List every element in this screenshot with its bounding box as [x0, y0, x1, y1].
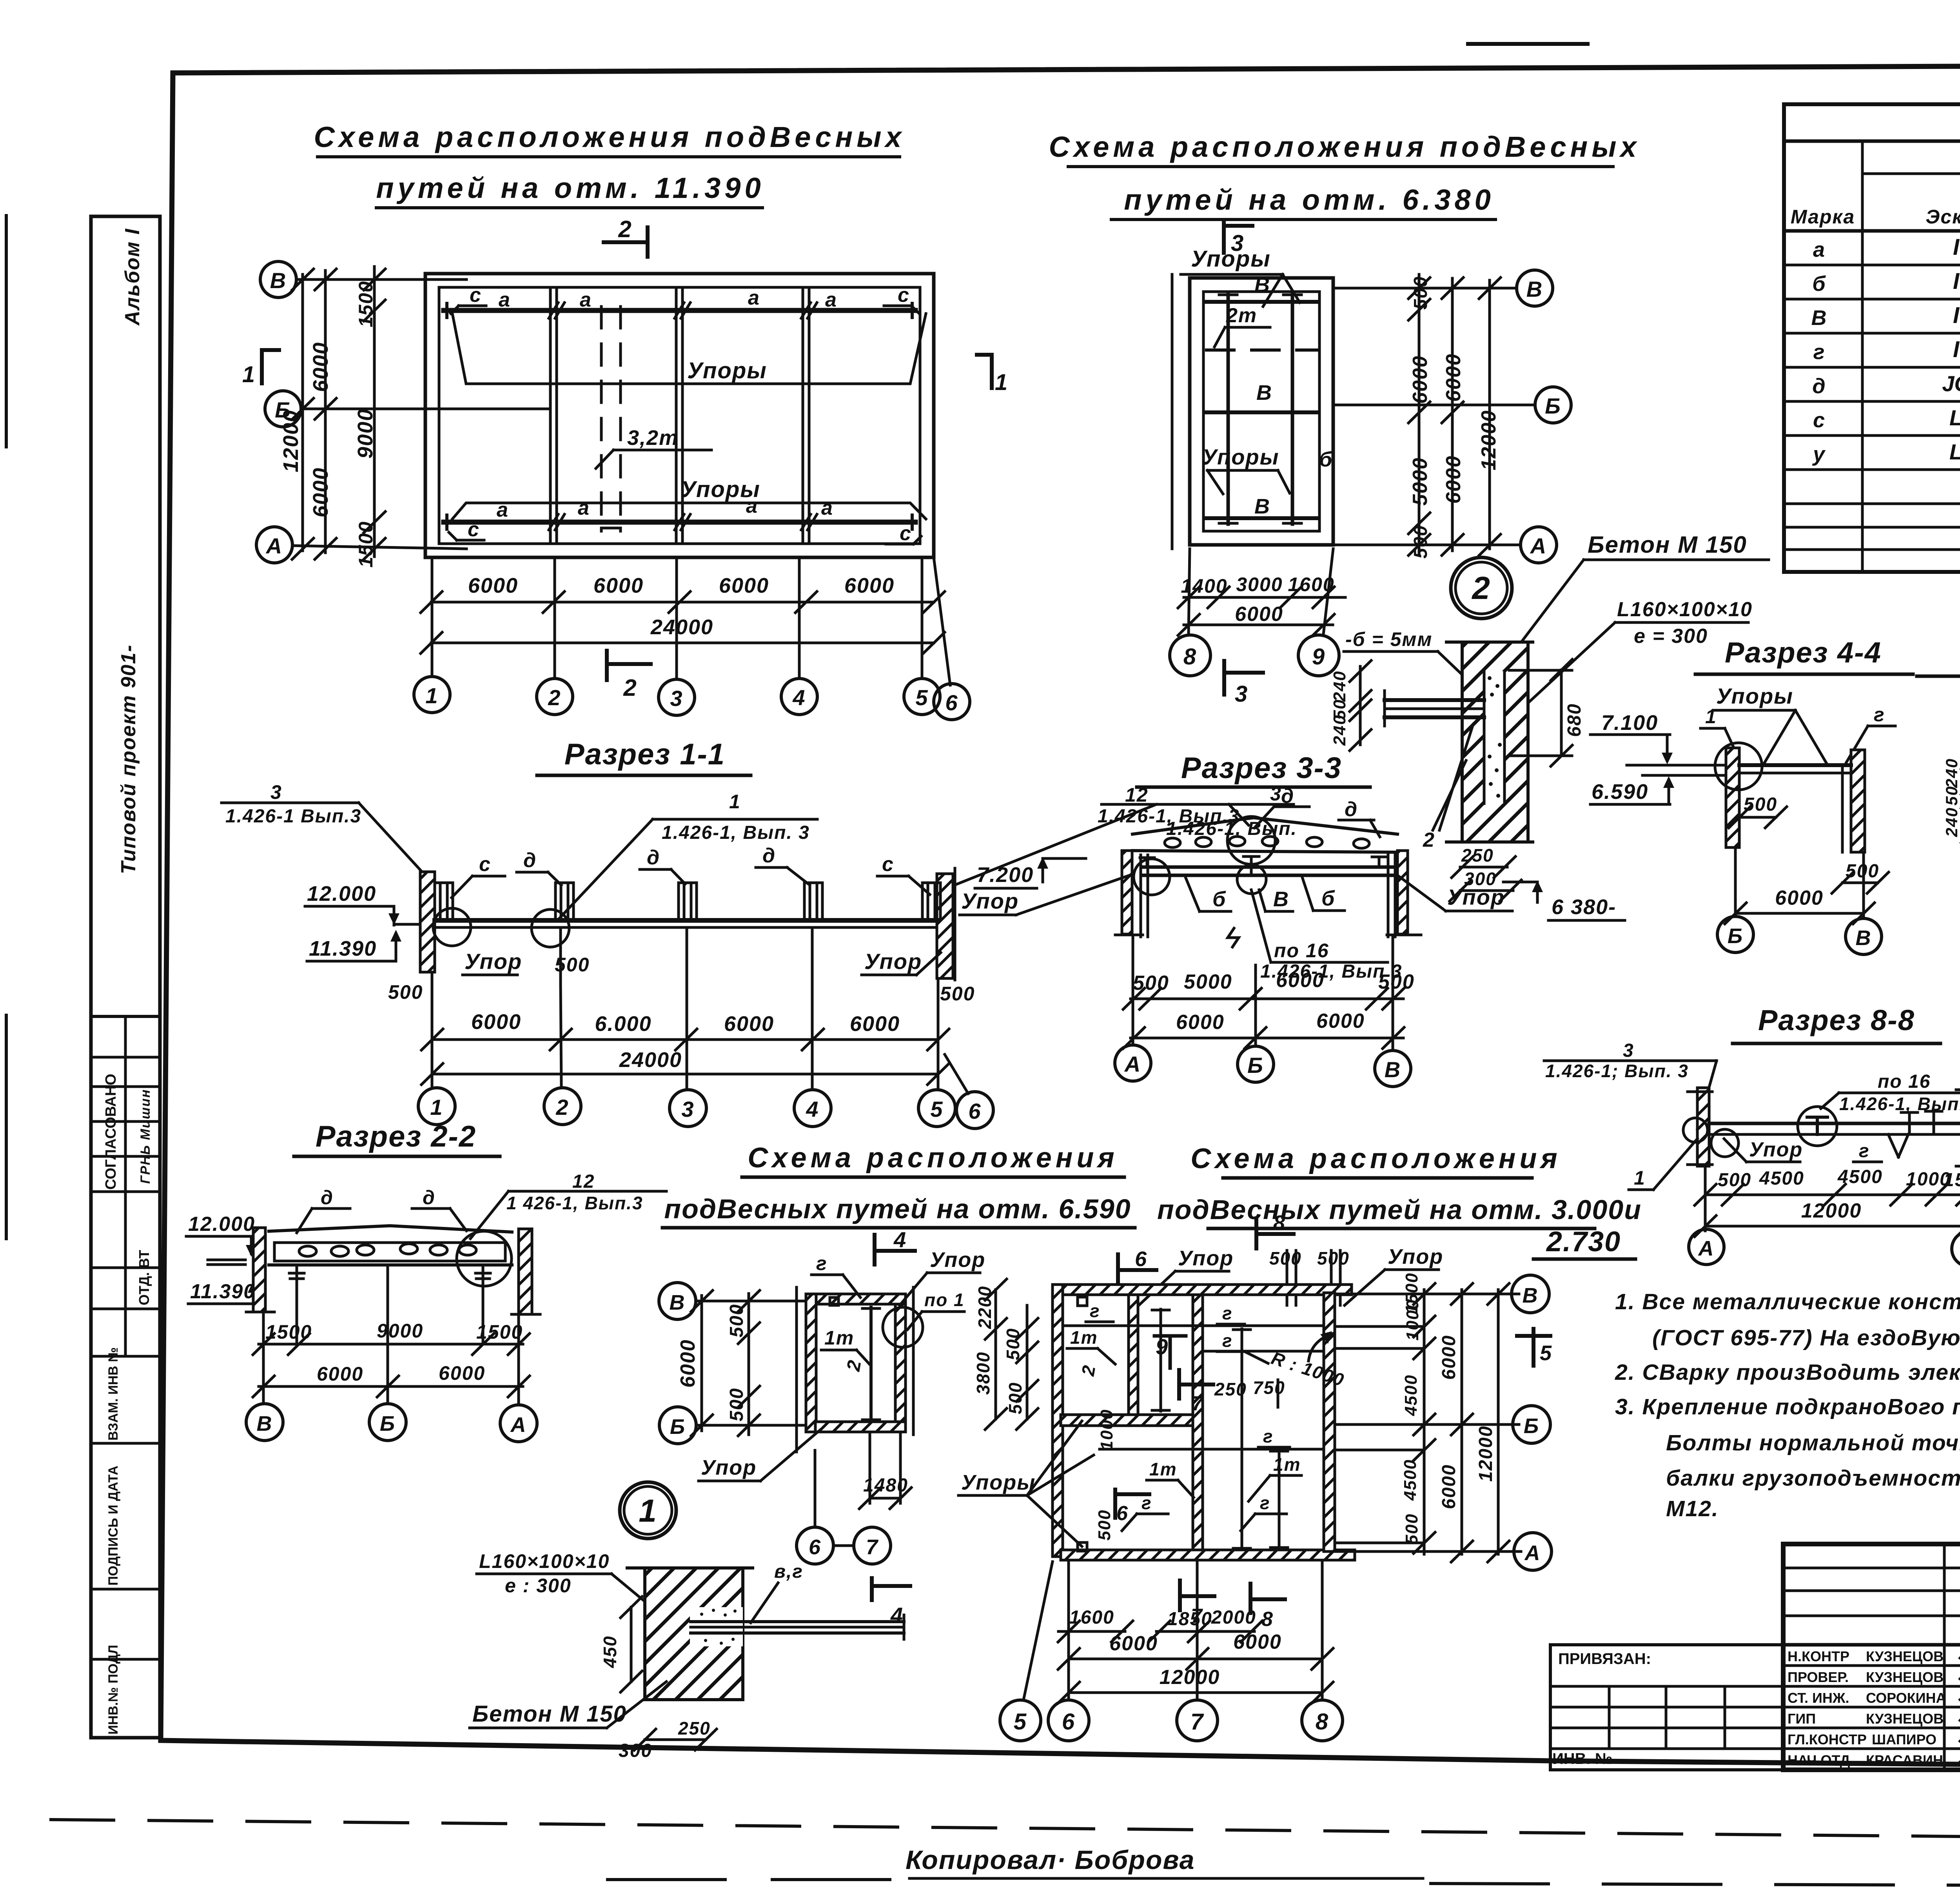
svg-text:4: 4 [893, 1227, 907, 1252]
svg-text:Упоры: Упоры [1191, 246, 1271, 272]
d labels [1281, 785, 1358, 821]
svg-text:б: б [1321, 887, 1335, 910]
svg-text:500: 500 [1378, 971, 1415, 993]
section marker 1 left [260, 350, 264, 383]
svg-text:6000: 6000 [1439, 1335, 1459, 1380]
svg-text:с: с [898, 284, 910, 307]
svg-text:Схема расположения подВесных: Схема расположения подВесных [314, 121, 905, 153]
250 / 750 [1214, 1377, 1285, 1399]
section marker 2 bottom [607, 662, 651, 666]
svg-text:5: 5 [1540, 1341, 1552, 1365]
L160 label [1617, 598, 1753, 648]
svg-text:8: 8 [1261, 1608, 1274, 1631]
leader 12 [1098, 784, 1240, 827]
svg-text:6000: 6000 [677, 1339, 699, 1388]
svg-text:6000: 6000 [1409, 355, 1432, 404]
label 2 leader [1423, 829, 1435, 851]
dim ticks right cols [1408, 278, 1501, 555]
bottom dims 6000/6000 [1069, 1658, 1322, 1660]
table data rows [1811, 234, 1960, 466]
svg-text:3: 3 [1235, 681, 1248, 707]
Upor left label [961, 889, 1019, 913]
svg-text:Упор: Упор [1749, 1138, 1803, 1161]
svg-text:12000: 12000 [1477, 410, 1500, 470]
svg-text:В: В [1523, 1284, 1539, 1307]
section marker 2 top [604, 240, 647, 244]
v labels [1254, 273, 1333, 518]
beam entering pocket [1385, 698, 1484, 702]
svg-text:В: В [1273, 887, 1289, 911]
po 1 [924, 1290, 965, 1310]
svg-text:8: 8 [1273, 1211, 1286, 1235]
right wall [937, 874, 953, 978]
Upor top-right [930, 1248, 985, 1272]
bottom dims [1184, 596, 1345, 599]
g label [1859, 1141, 1870, 1161]
svg-text:1: 1 [1705, 706, 1717, 728]
svg-text:5: 5 [1014, 1709, 1027, 1735]
Beton M150 [472, 1701, 627, 1727]
b=5mm label [1345, 628, 1432, 650]
left sidebar column [91, 216, 160, 1738]
500 labels [388, 954, 975, 1005]
1 label [1634, 1167, 1646, 1189]
svg-text:Разрез 2-2: Разрез 2-2 [316, 1120, 476, 1153]
dims row2 [1705, 1225, 1960, 1228]
svg-text:Альбом I: Альбом I [121, 228, 144, 326]
svg-text:6: 6 [968, 1099, 981, 1123]
svg-text:с: с [468, 518, 480, 541]
bottom dim row 2 [431, 642, 934, 644]
plan outer boundary lines [795, 1287, 798, 1452]
svg-text:В: В [1256, 381, 1272, 405]
svg-text:1.426-1 Вып.3: 1.426-1 Вып.3 [225, 806, 361, 827]
svg-text:1т: 1т [1149, 1459, 1177, 1479]
svg-text:6: 6 [1116, 1502, 1129, 1525]
circles B, Б [659, 1283, 696, 1319]
svg-text:500: 500 [940, 983, 975, 1005]
svg-text:1500: 1500 [265, 1321, 312, 1343]
svg-text:6000: 6000 [850, 1012, 900, 1036]
svg-text:по 16: по 16 [1878, 1071, 1931, 1092]
svg-text:1000: 1000 [1097, 1409, 1116, 1450]
svg-text:А: А [1698, 1237, 1715, 1260]
svg-text:1.426-1; Вып. 3: 1.426-1; Вып. 3 [1545, 1061, 1689, 1081]
title line 1 [314, 121, 905, 153]
svg-text:L: L [1949, 439, 1960, 464]
svg-text:24000: 24000 [650, 615, 713, 639]
svg-text:3000: 3000 [1236, 573, 1283, 595]
svg-text:500: 500 [726, 1304, 747, 1337]
svg-text:1т: 1т [1070, 1327, 1098, 1348]
left dims 240/50/240 [1359, 666, 1362, 745]
svg-text:ГЛ.КОНСТР: ГЛ.КОНСТР [1788, 1731, 1867, 1747]
svg-text:4500: 4500 [1759, 1168, 1804, 1189]
walls [1122, 851, 1132, 934]
svg-text:500: 500 [1003, 1328, 1023, 1360]
svg-text:Упоры: Упоры [1716, 684, 1793, 708]
pocket stipple [700, 1609, 737, 1645]
svg-text:9000: 9000 [354, 408, 377, 459]
svg-text:В: В [257, 1412, 273, 1435]
section marker 3 top [1222, 223, 1226, 253]
bottom dims 12000 [1069, 1691, 1322, 1694]
grid circle Б [265, 391, 301, 427]
svg-text:путей на отм. 6.380: путей на отм. 6.380 [1124, 183, 1495, 216]
privyazan annex [1552, 1650, 1651, 1767]
dim row 2 [432, 1073, 938, 1076]
right dim col 1 [1418, 274, 1421, 555]
svg-text:6000: 6000 [1109, 1632, 1158, 1655]
svg-text:КУЗНЕЦОВ: КУЗНЕЦОВ [1866, 1711, 1944, 1727]
svg-text:500: 500 [1402, 1513, 1421, 1544]
svg-text:6000: 6000 [317, 1363, 363, 1385]
svg-text:240: 240 [1330, 715, 1349, 746]
svg-text:1500: 1500 [355, 521, 377, 568]
svg-text:6000: 6000 [1775, 887, 1824, 909]
svg-text:д: д [647, 846, 660, 869]
vedomost table [1784, 104, 1960, 572]
1000 / 500 left rotated dims [1095, 1409, 1116, 1541]
svg-text:450: 450 [600, 1635, 620, 1668]
svg-text:д: д [1812, 374, 1825, 398]
svg-text:2: 2 [548, 685, 561, 710]
column circles 1-6 [414, 677, 450, 713]
svg-text:500: 500 [1744, 794, 1777, 815]
svg-text:6.000: 6.000 [595, 1012, 652, 1036]
svg-text:В: В [270, 268, 287, 293]
svg-text:6: 6 [1135, 1247, 1147, 1271]
svg-text:В: В [1385, 1057, 1401, 1082]
svg-text:750: 750 [1253, 1377, 1285, 1398]
svg-text:с: с [470, 284, 482, 307]
rail double line [435, 918, 937, 923]
hanger I sections [435, 883, 940, 920]
svg-text:Разрез 1-1: Разрез 1-1 [564, 738, 725, 771]
left dims [973, 1286, 1025, 1414]
right dim col 2 [1451, 278, 1454, 551]
svg-text:6 380-: 6 380- [1552, 895, 1616, 919]
svg-text:ОТД. ВТ: ОТД. ВТ [136, 1250, 152, 1305]
bottom handwritten texts [906, 1776, 1960, 1875]
svg-text:с: с [479, 853, 491, 876]
walls [1726, 748, 1739, 847]
svg-text:Б: Б [1247, 1053, 1264, 1078]
right dim col 1 [1423, 1290, 1426, 1554]
svg-text:Упор: Упор [1388, 1245, 1443, 1268]
right dim col 3 [1497, 1290, 1500, 1554]
extension lines [1133, 935, 1393, 1051]
svg-text:СТ. ИНЖ.: СТ. ИНЖ. [1788, 1690, 1849, 1706]
svg-text:3: 3 [670, 686, 683, 711]
beton M150 label [1588, 532, 1747, 558]
inside labels [1070, 1301, 1301, 1513]
section markers 7/8 bottom [1178, 1580, 1182, 1610]
svg-text:3,2т: 3,2т [627, 426, 679, 450]
svg-text:L160×100×10: L160×100×10 [479, 1550, 610, 1572]
joint circles [1134, 859, 1170, 895]
svg-text:Схема расположения: Схема расположения [748, 1142, 1118, 1174]
beam [1739, 763, 1851, 767]
svg-text:4: 4 [890, 1603, 904, 1628]
section marker 3 (between circles) [1222, 661, 1226, 695]
extensions + circles [263, 1265, 519, 1404]
upory trapezoid top [452, 314, 926, 384]
svg-text:1: 1 [425, 683, 438, 708]
svg-text:2: 2 [1423, 829, 1435, 851]
d labels [321, 1187, 436, 1208]
svg-text:Упор: Упор [1178, 1247, 1234, 1270]
svg-text:12.000: 12.000 [307, 882, 376, 905]
small T symbols right [1901, 1111, 1942, 1134]
svg-text:Бетон М 150: Бетон М 150 [472, 1701, 627, 1727]
dim ticks left [292, 269, 385, 559]
svg-text:В: В [1811, 306, 1827, 330]
vertical crane beams [1227, 294, 1230, 524]
section markers top [1116, 1254, 1120, 1284]
svg-text:1: 1 [995, 370, 1008, 395]
svg-text:11.390: 11.390 [309, 937, 377, 960]
outer wall [425, 274, 934, 557]
upory trapezoid bottom [452, 503, 926, 519]
svg-text:В: В [1254, 273, 1270, 297]
svg-text:1 426-1, Вып.3: 1 426-1, Вып.3 [506, 1193, 643, 1213]
svg-text:8: 8 [1183, 644, 1197, 670]
leader text mid [662, 791, 810, 843]
svg-text:3: 3 [270, 781, 282, 803]
svg-text:8: 8 [1316, 1709, 1329, 1735]
leaders for labels [1067, 1322, 1301, 1531]
svg-text:5000: 5000 [1184, 971, 1232, 993]
svg-text:Упор: Упор [1447, 885, 1505, 909]
po 16 leader [1260, 940, 1402, 982]
svg-text:А: А [265, 533, 283, 558]
svg-text:500: 500 [1133, 972, 1169, 994]
svg-text:1: 1 [729, 791, 741, 813]
hangers T [1140, 856, 1387, 875]
svg-text:ВЗАМ. ИНВ №: ВЗАМ. ИНВ № [106, 1347, 121, 1441]
svg-text:4500: 4500 [1401, 1459, 1420, 1501]
svg-text:6000: 6000 [468, 574, 518, 597]
svg-text:Типовой проект 901-: Типовой проект 901- [117, 644, 140, 875]
svg-text:6000: 6000 [309, 342, 332, 392]
svg-text:6000: 6000 [1235, 603, 1283, 626]
section marker 4 top [873, 1235, 877, 1265]
elevations [188, 1213, 256, 1303]
grid circle B [260, 261, 296, 298]
svg-text:Схема расположения подВесных: Схема расположения подВесных [1049, 131, 1640, 163]
hatched walls [806, 1294, 906, 1304]
svg-text:ПОДПИСЬ И ДАТА: ПОДПИСЬ И ДАТА [106, 1466, 121, 1586]
svg-text:М12.: М12. [1666, 1496, 1719, 1521]
svg-text:7: 7 [1191, 1709, 1204, 1735]
svg-text:2.730: 2.730 [1546, 1226, 1621, 1257]
inner column axes double lines [550, 287, 809, 544]
svg-text:500: 500 [388, 981, 423, 1003]
svg-text:7.100: 7.100 [1601, 711, 1658, 735]
svg-text:г: г [1260, 1493, 1270, 1513]
svg-text:по 1: по 1 [924, 1290, 965, 1310]
450 dim [630, 1607, 633, 1682]
svg-text:Упоры: Упоры [1202, 445, 1279, 469]
svg-text:I: I [1953, 234, 1960, 260]
svg-text:а: а [1813, 238, 1825, 261]
svg-text:6000: 6000 [844, 574, 895, 597]
left labels rows [1788, 1648, 1946, 1768]
grid circle A [256, 527, 292, 563]
svg-text:Бетон М 150: Бетон М 150 [1588, 532, 1747, 558]
dim row 1 [432, 1038, 938, 1041]
node circle [883, 1307, 923, 1347]
walls [1697, 1088, 1709, 1166]
svg-text:д: д [423, 1187, 436, 1208]
svg-text:д: д [762, 844, 776, 867]
extensions to circles [432, 927, 968, 1094]
break mark [1228, 928, 1239, 947]
svg-text:3: 3 [681, 1097, 694, 1121]
svg-text:г: г [1090, 1301, 1100, 1321]
svg-text:г: г [1874, 704, 1885, 726]
svg-text:6000: 6000 [471, 1010, 521, 1034]
leader text left [225, 781, 361, 827]
svg-text:Б: Б [670, 1415, 686, 1439]
joint circles [433, 908, 471, 946]
rail end markers [447, 303, 912, 529]
detail drawing: concrete wall with pocket [1462, 642, 1528, 842]
svg-text:12000: 12000 [1160, 1666, 1220, 1689]
svg-text:а: а [748, 287, 760, 309]
inner beam [869, 1307, 873, 1421]
leader 12 [506, 1171, 643, 1213]
svg-text:6000: 6000 [1442, 455, 1465, 504]
elevations [307, 882, 377, 960]
dims row2 [259, 1385, 523, 1388]
svg-text:4500: 4500 [1837, 1167, 1883, 1187]
column circles [418, 1088, 455, 1125]
circles [1115, 1045, 1151, 1081]
svg-text:1: 1 [430, 1095, 443, 1120]
svg-text:г: г [1813, 340, 1825, 364]
svg-text:6000: 6000 [1442, 353, 1465, 402]
upory top [1191, 246, 1271, 272]
svg-text:5000: 5000 [1409, 457, 1432, 506]
crane dashed [1207, 348, 1317, 352]
svg-text:г: г [1222, 1330, 1233, 1351]
c/d labels [479, 844, 894, 876]
T circle [1798, 1107, 1837, 1146]
svg-text:12.000: 12.000 [188, 1213, 255, 1236]
joint circle [457, 1231, 512, 1286]
svg-text:1: 1 [242, 362, 256, 387]
svg-text:6000: 6000 [1176, 1011, 1225, 1034]
svg-text:Упор: Упор [930, 1248, 985, 1272]
svg-text:В: В [1526, 277, 1543, 301]
svg-text:250: 250 [1461, 845, 1494, 866]
svg-text:ГРНЬ Мишин: ГРНЬ Мишин [138, 1089, 153, 1184]
svg-text:1: 1 [639, 1493, 657, 1529]
data row lines [1784, 264, 1960, 267]
dim col 1500/9000/1500 [373, 267, 376, 557]
svg-text:240: 240 [1942, 758, 1960, 788]
b V b labels [1212, 887, 1335, 911]
title line 2 [376, 172, 764, 204]
Upor bottom [701, 1456, 757, 1479]
svg-text:д: д [1345, 798, 1358, 821]
svg-text:9: 9 [1156, 1334, 1169, 1359]
svg-text:А: А [1124, 1052, 1141, 1076]
plan walls [1190, 278, 1333, 545]
svg-text:2: 2 [618, 216, 632, 242]
left vertical line of plan edge [1171, 274, 1174, 549]
svg-text:4500: 4500 [1401, 1374, 1421, 1416]
svg-text:2000: 2000 [1211, 1607, 1256, 1628]
left leader [1545, 1040, 1689, 1081]
svg-text:Болты нормальной точности М: Болты нормальной точности М16 (ГОСТ 7798… [1666, 1430, 1960, 1455]
Upor top right [1388, 1245, 1443, 1268]
svg-text:ГИП: ГИП [1788, 1711, 1816, 1727]
svg-text:6000: 6000 [1233, 1631, 1282, 1653]
dim col 6000/6000 [324, 270, 327, 553]
extensions + circles [1024, 1562, 1322, 1698]
walls [253, 1228, 265, 1312]
svg-text:Н.КОНТР: Н.КОНТР [1788, 1648, 1849, 1664]
dims row1 [1131, 998, 1403, 1000]
svg-text:д: д [523, 849, 537, 872]
svg-text:I: I [1953, 303, 1960, 328]
svg-text:500: 500 [1718, 1170, 1751, 1190]
left joint circles [1683, 1118, 1708, 1142]
dims 500 [1744, 794, 1879, 882]
svg-text:7.200: 7.200 [977, 863, 1034, 887]
svg-text:г: г [816, 1252, 828, 1274]
axis lines [296, 278, 466, 281]
pocket stipple [1488, 676, 1502, 798]
svg-text:а: а [499, 289, 511, 311]
right extension lines [1335, 1294, 1521, 1551]
svg-text:а: а [578, 497, 590, 519]
svg-text:а: а [580, 289, 592, 311]
svg-text:1500: 1500 [1944, 1170, 1960, 1190]
svg-text:в,г: в,г [774, 1561, 803, 1582]
section marker 7 mid [1177, 1370, 1181, 1399]
svg-text:500: 500 [726, 1388, 747, 1421]
svg-text:500: 500 [1095, 1510, 1114, 1541]
svg-text:а: а [825, 289, 837, 311]
svg-text:680: 680 [1564, 703, 1585, 737]
svg-text:-б = 5мм: -б = 5мм [1345, 628, 1432, 650]
weld V [1888, 1134, 1898, 1157]
svg-text:А: А [1524, 1541, 1541, 1565]
right dim col 2 [1461, 1290, 1463, 1554]
hatched block [645, 1568, 743, 1700]
svg-text:КРАСАВИН: КРАСАВИН [1866, 1752, 1943, 1768]
axis lines + circles [1333, 287, 1517, 290]
svg-text:Упор: Упор [465, 949, 522, 974]
R=1000 [1269, 1348, 1347, 1390]
section marker 6 lower-left [1113, 1490, 1117, 1518]
svg-text:L160×100×10: L160×100×10 [1617, 598, 1753, 621]
beam [1709, 1122, 1960, 1125]
header internals [1861, 141, 1864, 572]
svg-text:JC: JC [1942, 371, 1960, 396]
section marker 5 right [1517, 1334, 1550, 1338]
dims row1 [1705, 1194, 1960, 1196]
svg-text:6000: 6000 [309, 467, 332, 517]
svg-text:500: 500 [1317, 1248, 1350, 1268]
svg-text:6000: 6000 [1439, 1464, 1459, 1509]
Upor right + 6.380 [1447, 885, 1505, 909]
svg-text:250: 250 [678, 1718, 711, 1738]
